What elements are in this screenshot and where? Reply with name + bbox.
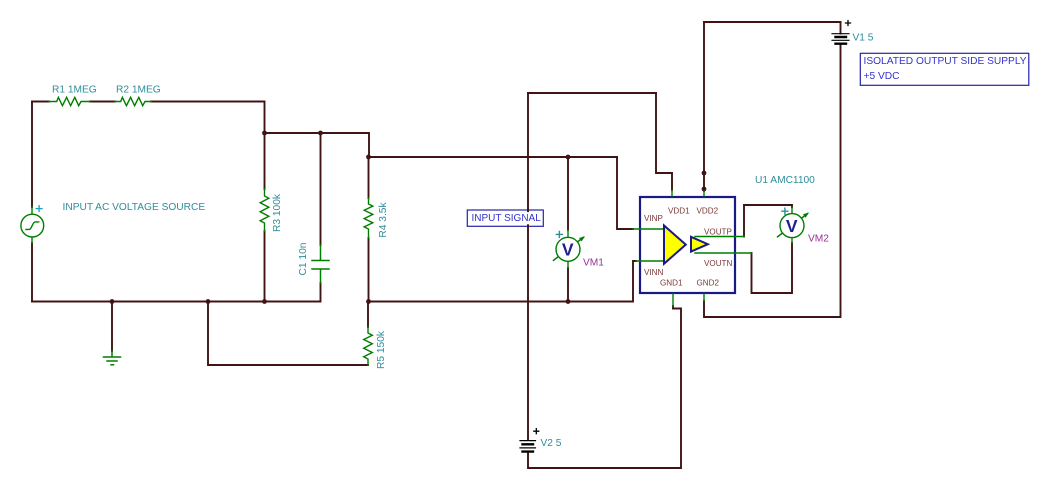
wire VDD1 feed bbox=[656, 93, 672, 190]
AC source VG1 bbox=[21, 206, 44, 243]
svg-text:V1 5: V1 5 bbox=[853, 32, 874, 43]
svg-text:R2 1MEG: R2 1MEG bbox=[116, 84, 161, 95]
junction C1 top node bbox=[318, 131, 323, 136]
wire top rail from source to R1/R2 net bbox=[32, 101, 265, 103]
svg-text:VOUTP: VOUTP bbox=[704, 228, 732, 237]
wire ground branch bbox=[111, 302, 113, 352]
wire VM1 top branch bbox=[567, 157, 569, 230]
svg-text:R3 100k: R3 100k bbox=[272, 193, 283, 232]
wire VM1 bottom branch bbox=[567, 268, 569, 302]
junction VDD2 feed upper bbox=[702, 171, 707, 176]
svg-text:VINN: VINN bbox=[644, 268, 663, 277]
wire V1 plus lead bbox=[840, 22, 842, 34]
U1 input triangle bbox=[664, 226, 686, 264]
svg-text:VOUTN: VOUTN bbox=[704, 259, 732, 268]
svg-text:VDD1: VDD1 bbox=[668, 207, 690, 216]
wire R5 bottom loop bbox=[208, 302, 368, 366]
svg-text:+5 VDC: +5 VDC bbox=[864, 71, 900, 82]
wire VINN rail y301 bbox=[369, 261, 637, 302]
wire VOUTN lead bbox=[695, 252, 752, 254]
wire V1 top rail bbox=[704, 21, 841, 23]
svg-text:INPUT SIGNAL: INPUT SIGNAL bbox=[472, 213, 542, 224]
svg-text:U1 AMC1100: U1 AMC1100 bbox=[755, 175, 815, 186]
svg-text:V: V bbox=[786, 216, 798, 236]
svg-text:R5 150k: R5 150k bbox=[376, 330, 387, 369]
svg-text:R1 1MEG: R1 1MEG bbox=[52, 84, 97, 95]
wire VOUTP lead bbox=[695, 236, 744, 238]
junction R5 return node bbox=[206, 299, 211, 304]
wire ground rail bottom-left bbox=[32, 283, 321, 302]
junction R3 bottom node bbox=[262, 299, 267, 304]
wire R2 to node A vertical bbox=[264, 102, 266, 134]
junction VM1 bottom node bbox=[566, 299, 571, 304]
resistor R2 bbox=[115, 97, 151, 105]
wire input signal vertical bbox=[527, 93, 529, 440]
wire VINN lead bbox=[636, 260, 664, 262]
svg-text:GND1: GND1 bbox=[660, 279, 683, 288]
resistor R4 bbox=[364, 198, 373, 238]
wire R5 top lead bbox=[367, 302, 369, 328]
wire R3 leads bbox=[264, 133, 266, 302]
voltmeter VM2 bbox=[778, 207, 810, 243]
svg-text:C1 10n: C1 10n bbox=[298, 243, 309, 276]
junction R4 top node bbox=[366, 155, 371, 160]
wire R4 leads bbox=[368, 157, 370, 302]
junction ground node bbox=[110, 299, 115, 304]
ground bbox=[104, 351, 121, 365]
wire VOUTN to VM2 minus bbox=[752, 243, 793, 293]
svg-text:VM1: VM1 bbox=[583, 258, 604, 269]
svg-text:VDD2: VDD2 bbox=[697, 207, 719, 216]
svg-text:V: V bbox=[562, 240, 574, 260]
battery V2 bbox=[520, 429, 539, 452]
pin stub VDD2 bbox=[703, 191, 705, 196]
U1 output triangle bbox=[691, 237, 708, 252]
voltmeter VM1 bbox=[554, 230, 586, 268]
wire input signal vertical over box border bbox=[527, 209, 529, 227]
text box ISOLATED OUTPUT SIDE SUPPLY bbox=[860, 53, 1029, 85]
pin stub GND2 bbox=[703, 294, 705, 301]
wire VOUTP to VM2 plus bbox=[744, 205, 792, 237]
wire node A rail y133 bbox=[265, 133, 370, 157]
pin stub GND1 bbox=[672, 294, 674, 306]
svg-text:VM2: VM2 bbox=[808, 234, 829, 245]
svg-text:GND2: GND2 bbox=[697, 279, 720, 288]
svg-text:ISOLATED OUTPUT SIDE SUPPLY: ISOLATED OUTPUT SIDE SUPPLY bbox=[864, 56, 1027, 67]
junction R4/R5 node bbox=[366, 299, 371, 304]
battery V1 bbox=[832, 21, 851, 44]
wire VINP lead bbox=[633, 228, 664, 230]
pin stub VDD1 bbox=[671, 190, 673, 196]
text box INPUT SIGNAL bbox=[467, 210, 543, 226]
wire source bottom vertical bbox=[31, 243, 33, 302]
wire VINP branch bbox=[617, 157, 633, 229]
wire node A rail y157 bbox=[369, 156, 618, 158]
wire V1 minus to GND2 bbox=[704, 45, 841, 318]
junction node A left bbox=[262, 131, 267, 136]
wire V2 minus to GND1 bbox=[528, 306, 681, 468]
svg-text:R4 3.5k: R4 3.5k bbox=[378, 202, 389, 238]
svg-text:VINP: VINP bbox=[644, 214, 663, 223]
resistor R3 bbox=[260, 189, 269, 231]
capacitor C1 bbox=[312, 245, 329, 283]
svg-text:INPUT AC VOLTAGE SOURCE: INPUT AC VOLTAGE SOURCE bbox=[63, 202, 206, 213]
svg-text:V2 5: V2 5 bbox=[541, 438, 562, 449]
op-amp U1 AMC1100 body bbox=[640, 197, 735, 293]
resistor R1 bbox=[49, 97, 90, 105]
junction VDD2 feed lower bbox=[702, 187, 707, 192]
resistor R5 bbox=[364, 327, 373, 365]
wire V2 plus to VDD1 horizontal bbox=[528, 92, 656, 94]
junction VM1 top node bbox=[566, 155, 571, 160]
wire source top vertical bbox=[31, 102, 33, 208]
wire VDD2 feed vertical bbox=[703, 22, 705, 191]
wire C1 top lead bbox=[320, 133, 322, 245]
